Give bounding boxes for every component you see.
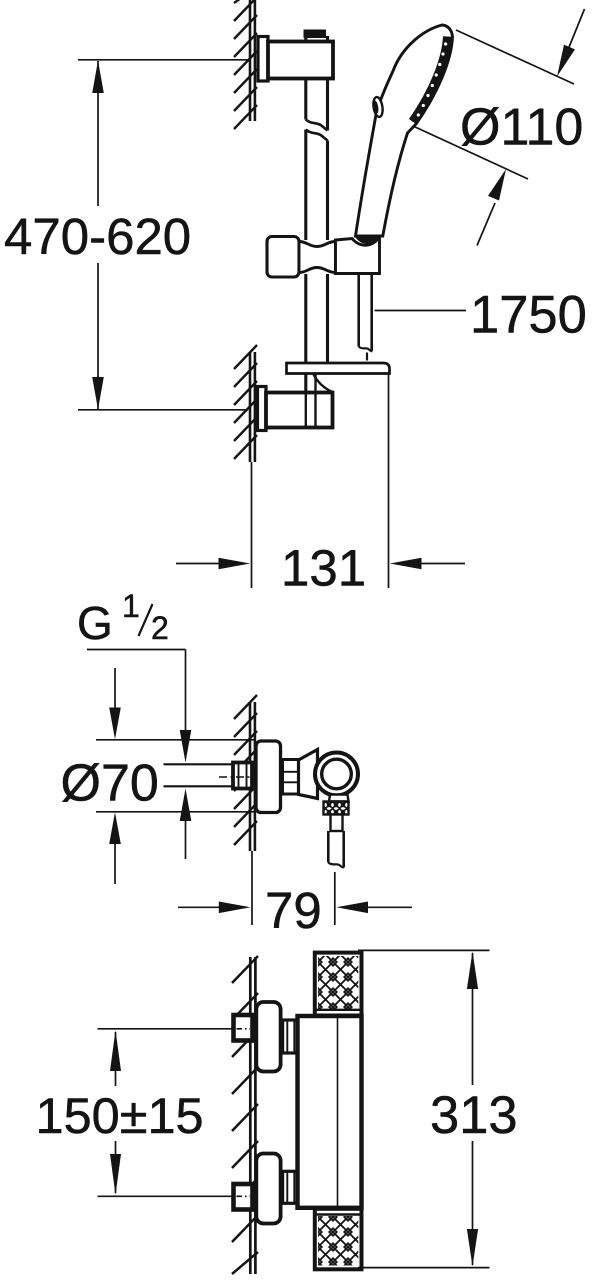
G 1/2 arrow down — [180, 730, 192, 763]
svg-text:150±15: 150±15 — [36, 1087, 204, 1144]
thermostat body — [298, 1016, 362, 1208]
wall hatching lower — [234, 345, 257, 459]
dimension text 470-620 — [90, 206, 106, 263]
handle-cup meniscus — [355, 237, 381, 245]
wall hatching top — [234, 0, 257, 129]
svg-text:1750: 1750 — [470, 286, 587, 345]
svg-text:131: 131 — [281, 540, 366, 597]
bottom union nut — [234, 1184, 253, 1210]
G 1/2 arrow up (below pipe) — [180, 789, 192, 860]
valve handle ring inner — [322, 759, 352, 789]
dimension text 313 — [464, 1085, 481, 1141]
svg-text:Ø110: Ø110 — [460, 99, 583, 157]
dimension 470-620 extension line top — [78, 59, 248, 61]
dimension Ø70 arrows — [109, 668, 121, 884]
leader line 1750 — [375, 310, 467, 312]
wall middle segment — [250, 702, 255, 851]
dimension 470-620 dimension line with arrows — [92, 61, 104, 410]
wall bottom segment — [250, 957, 255, 1274]
svg-text:2: 2 — [151, 610, 169, 646]
dimension Ø110 arrow upper right — [557, 9, 585, 77]
dimension 79 extension left (wall line) — [251, 851, 253, 925]
G 1/2 leader line — [87, 650, 186, 733]
hose break cut — [359, 347, 373, 361]
valve escutcheon — [256, 741, 281, 813]
hose nipple — [331, 815, 343, 832]
dimension 79 arrows — [178, 902, 412, 914]
lower bracket flange — [258, 387, 267, 431]
top pipe centerline — [98, 1028, 234, 1030]
shelf tray — [287, 363, 390, 374]
dimension 470-620 extension line bottom — [78, 409, 248, 411]
control button — [372, 96, 384, 117]
lower bracket arm — [266, 393, 333, 428]
valve union nut — [233, 763, 252, 789]
wall top segment — [250, 0, 255, 121]
top hex connector — [283, 1020, 299, 1053]
glider holder cup — [336, 238, 380, 274]
top wall bracket arm — [268, 42, 333, 79]
wall hatching middle — [234, 695, 257, 845]
valve body cone — [299, 750, 318, 799]
tray fillet — [313, 374, 334, 393]
dimension Ø110 face extension line lower — [413, 126, 528, 179]
shower hose upper (from glider down) — [359, 272, 372, 351]
dimension 313 dimension line with arrows — [467, 952, 478, 1267]
top knurled handle — [315, 953, 362, 1016]
hose connector under ring — [329, 795, 349, 802]
dimension 150±15 dimension line with arrows — [110, 1030, 121, 1195]
dimension 313 extension lines — [358, 950, 490, 1267]
svg-text:79: 79 — [265, 882, 322, 939]
tray support line — [314, 374, 316, 393]
glider holder knob — [267, 237, 299, 278]
svg-text:Ø70: Ø70 — [61, 755, 159, 813]
G 1/2 fraction slash — [139, 604, 153, 636]
bottom pipe centerline — [98, 1195, 234, 1197]
top wall bracket flange — [258, 37, 268, 82]
top union nut — [234, 1015, 253, 1041]
svg-text:470-620: 470-620 — [4, 208, 191, 265]
valve hex adapter — [283, 760, 299, 795]
spray face band — [413, 37, 448, 122]
bottom escutcheon — [256, 1154, 280, 1224]
dimension Ø70 extension lines — [96, 740, 254, 812]
rail segment between tray and arm — [304, 374, 307, 393]
valve handle ring outer — [315, 753, 358, 796]
rail inside bracket — [305, 393, 307, 428]
svg-text:G: G — [77, 597, 113, 649]
rail break squiggle — [306, 120, 328, 141]
knurled hose nut — [324, 802, 349, 815]
svg-text:313: 313 — [430, 1086, 518, 1145]
valve hose break cut — [328, 863, 344, 868]
wall lower segment — [250, 352, 255, 462]
bottom hex connector — [283, 1171, 299, 1203]
top escutcheon — [256, 1002, 280, 1072]
valve hose — [328, 831, 343, 868]
pipe centerline (dash-dot) — [219, 776, 257, 778]
rail top cap — [304, 30, 327, 39]
svg-text:1: 1 — [122, 588, 140, 624]
dimension 131 extension left — [251, 462, 253, 588]
dimension text 150±15 — [107, 1086, 124, 1141]
dimension 131 extension right — [388, 374, 390, 588]
hand shower handle and head outline — [356, 25, 453, 236]
dimension Ø110 arrow lower — [477, 169, 506, 246]
label G 1/2 — [77, 588, 169, 649]
supply pipe stub — [164, 764, 234, 786]
rail lower part to bracket — [306, 274, 328, 364]
glider holder body — [299, 242, 336, 273]
dimension 79 extension right (hose centre) — [334, 872, 336, 925]
dimension Ø110 face extension line upper — [456, 30, 574, 84]
spray face specks — [417, 42, 448, 116]
wall hatching bottom — [232, 956, 258, 1274]
dimension 131 arrows — [176, 558, 465, 570]
bottom knurled handle — [315, 1209, 362, 1270]
shower rail (upper part) — [306, 36, 328, 240]
